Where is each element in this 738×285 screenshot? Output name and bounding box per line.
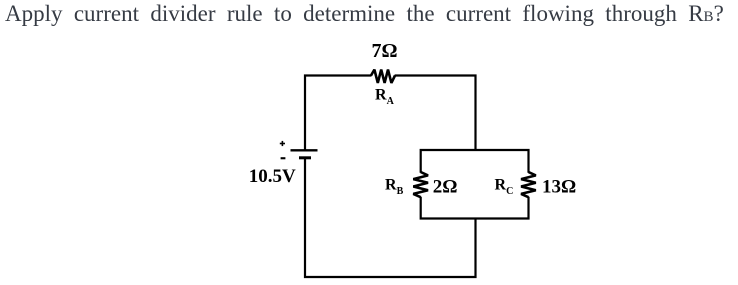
svg-text:10.5V: 10.5V <box>249 166 296 187</box>
battery V1 positive plate (long) <box>291 149 318 151</box>
resistor RC zigzag <box>521 172 536 197</box>
wire: RB lower lead, parallel box bottom edge, RC lower lead <box>421 197 529 219</box>
battery plus sign <box>280 143 285 145</box>
svg-text:RA: RA <box>375 87 395 108</box>
svg-text:7Ω: 7Ω <box>372 40 398 62</box>
resistor RA zigzag <box>371 70 395 83</box>
svg-text:2Ω: 2Ω <box>433 177 458 198</box>
wire: top horizontal right segment, top-right corner, middle vertical upper <box>395 76 476 152</box>
resistor RB zigzag <box>413 172 428 197</box>
battery minus sign <box>281 157 286 159</box>
svg-text:RC: RC <box>495 177 514 198</box>
wire: RB upper lead, parallel box top edge, RC upper lead <box>421 150 529 173</box>
wire: left vertical below battery, bottom wire, middle vertical lower <box>305 158 476 277</box>
svg-text:13Ω: 13Ω <box>542 177 576 198</box>
question text <box>5 1 724 27</box>
wire: left vertical above battery, top-left corner, top wire left segment <box>305 76 372 151</box>
battery V1 negative plate (short) <box>299 156 311 159</box>
svg-text:RB: RB <box>385 177 404 198</box>
